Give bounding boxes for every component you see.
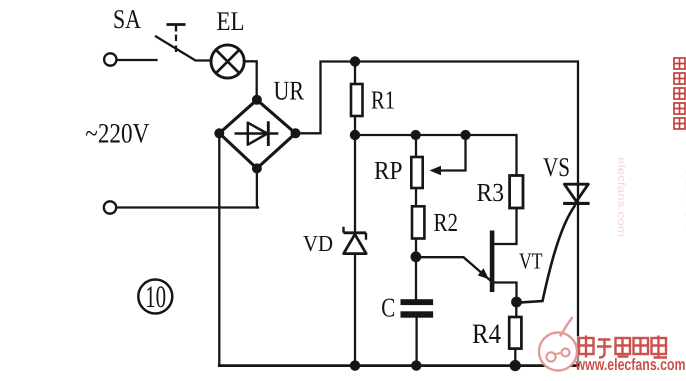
- svg-text:VT: VT: [519, 249, 543, 274]
- svg-text:EL: EL: [217, 6, 245, 36]
- svg-text:VS: VS: [543, 152, 570, 182]
- svg-text:VD: VD: [303, 231, 333, 256]
- svg-text:R3: R3: [477, 178, 505, 207]
- svg-text:SA: SA: [113, 4, 141, 34]
- svg-text:~220V: ~220V: [85, 119, 149, 150]
- svg-text:10: 10: [145, 279, 166, 314]
- svg-text:R1: R1: [371, 86, 395, 115]
- svg-text:C: C: [381, 293, 395, 323]
- svg-text:elecfans.com: elecfans.com: [615, 157, 627, 237]
- svg-text:www.elecfans.com: www.elecfans.com: [575, 356, 686, 374]
- svg-text:RP: RP: [374, 156, 403, 185]
- svg-text:R4: R4: [472, 319, 501, 350]
- svg-text:UR: UR: [274, 76, 305, 106]
- svg-text:R2: R2: [434, 208, 459, 237]
